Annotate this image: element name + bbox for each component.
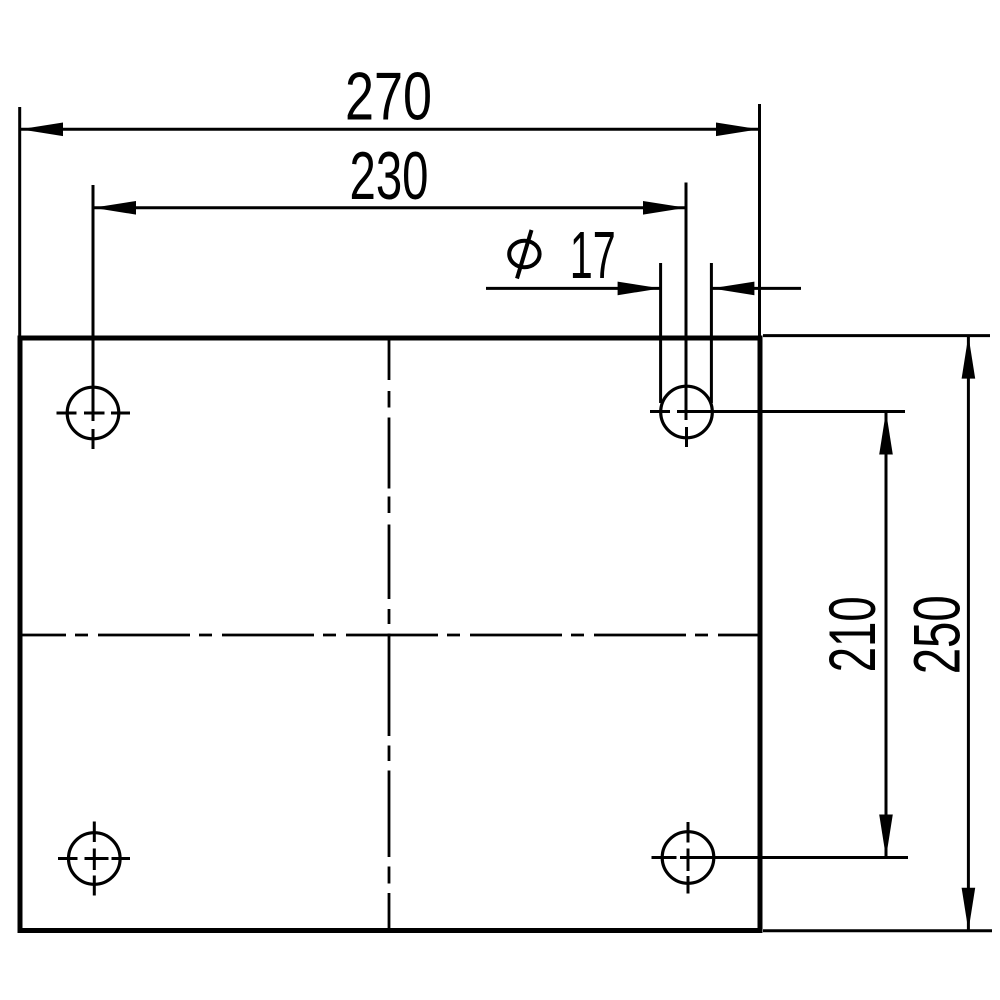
hole bottom-left vertical crosshair bbox=[93, 822, 96, 896]
plate outline bbox=[20, 338, 760, 931]
dimension 250 arrow top bbox=[962, 336, 976, 379]
hole bottom-right vertical crosshair bbox=[687, 822, 690, 894]
dimension 250 line bbox=[967, 336, 970, 931]
hole bottom-left bbox=[69, 833, 121, 885]
dimension 210 line bbox=[885, 412, 888, 858]
hole bottom-right bbox=[662, 832, 714, 884]
dimension 270 arrow left bbox=[20, 123, 63, 137]
dimension 270 extension line left bbox=[18, 107, 21, 336]
hole bottom-right horizontal crosshair left dash bbox=[652, 856, 677, 859]
dimension 250 arrow bottom bbox=[962, 888, 976, 931]
hole bottom-left horizontal crosshair bbox=[58, 857, 130, 860]
dimension phi17 arrow left (points right) bbox=[618, 282, 661, 296]
hole top-right horizontal crosshair left dash bbox=[650, 410, 670, 413]
dimension phi17 leader line left bbox=[486, 287, 660, 290]
dimension phi17 arrow right (points left) bbox=[711, 282, 754, 296]
dimension 250 extension line top bbox=[763, 334, 990, 337]
dimension 210 extension line top bbox=[677, 410, 905, 413]
centerline horizontal (plate) bbox=[20, 634, 760, 637]
hole top-right bbox=[661, 386, 713, 438]
dimension phi17 extension line right bbox=[710, 263, 713, 403]
svg-text:230: 230 bbox=[350, 138, 429, 214]
centerline vertical (plate) bbox=[388, 338, 391, 929]
dimension 270 arrow right bbox=[716, 123, 759, 137]
dimension 230 arrow left bbox=[93, 201, 136, 215]
hole top-left bbox=[67, 387, 119, 439]
dimension 210 arrow bottom bbox=[879, 815, 893, 858]
dimension 230 extension line left bbox=[92, 185, 95, 421]
hole top-left horizontal crosshair bbox=[57, 412, 131, 415]
dimension 210 arrow top bbox=[879, 412, 893, 455]
hole top-right vertical crosshair lower dash bbox=[685, 427, 688, 447]
svg-text:250: 250 bbox=[899, 595, 973, 674]
svg-text:210: 210 bbox=[815, 596, 889, 672]
hole top-left vertical crosshair lower dash bbox=[92, 429, 95, 449]
svg-text:17: 17 bbox=[570, 218, 616, 293]
dimension 230 extension line right bbox=[685, 183, 688, 421]
dimension 230 line bbox=[93, 206, 686, 209]
dimension 270 extension line right bbox=[758, 104, 761, 336]
svg-text:270: 270 bbox=[345, 59, 432, 135]
dimension 270 line bbox=[20, 128, 759, 131]
dimension 230 arrow right bbox=[643, 201, 686, 215]
dimension phi17 extension line left bbox=[659, 263, 662, 403]
dimension phi17 symbol circle bbox=[509, 241, 539, 267]
dimension 250 extension line bottom bbox=[763, 929, 992, 932]
dimension phi17 leader line right bbox=[712, 287, 801, 290]
dimension phi17 symbol slash bbox=[517, 230, 532, 279]
dimension 210 extension line bottom bbox=[680, 856, 908, 859]
